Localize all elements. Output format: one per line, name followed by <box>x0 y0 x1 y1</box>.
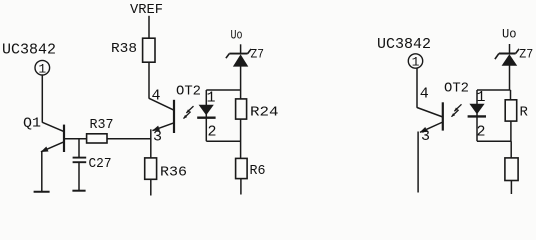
svg-text:Uo: Uo <box>502 26 517 41</box>
svg-text:1: 1 <box>412 55 420 70</box>
svg-text:UC3842: UC3842 <box>377 36 431 53</box>
svg-text:R37: R37 <box>90 117 114 133</box>
svg-text:OT2: OT2 <box>444 81 469 97</box>
svg-text:UC3842: UC3842 <box>2 42 56 59</box>
svg-text:Z7: Z7 <box>519 46 533 61</box>
svg-text:R6: R6 <box>250 163 266 179</box>
svg-text:2: 2 <box>207 123 216 140</box>
svg-text:4: 4 <box>420 85 429 102</box>
svg-text:1: 1 <box>476 89 485 106</box>
svg-text:R38: R38 <box>111 41 137 57</box>
svg-text:R24: R24 <box>250 104 279 120</box>
svg-text:2: 2 <box>476 123 485 140</box>
svg-text:4: 4 <box>151 87 160 104</box>
svg-text:Uo: Uo <box>231 29 243 43</box>
svg-text:1: 1 <box>206 90 215 107</box>
svg-text:C27: C27 <box>89 156 112 172</box>
svg-text:VREF: VREF <box>130 2 163 18</box>
svg-text:R: R <box>520 104 529 120</box>
svg-text:3: 3 <box>153 128 162 145</box>
svg-text:OT2: OT2 <box>176 84 201 100</box>
svg-text:Z7: Z7 <box>251 46 265 61</box>
svg-text:R36: R36 <box>160 164 187 180</box>
svg-text:1: 1 <box>38 61 46 76</box>
svg-text:Q1: Q1 <box>23 115 41 131</box>
svg-text:3: 3 <box>421 128 430 145</box>
